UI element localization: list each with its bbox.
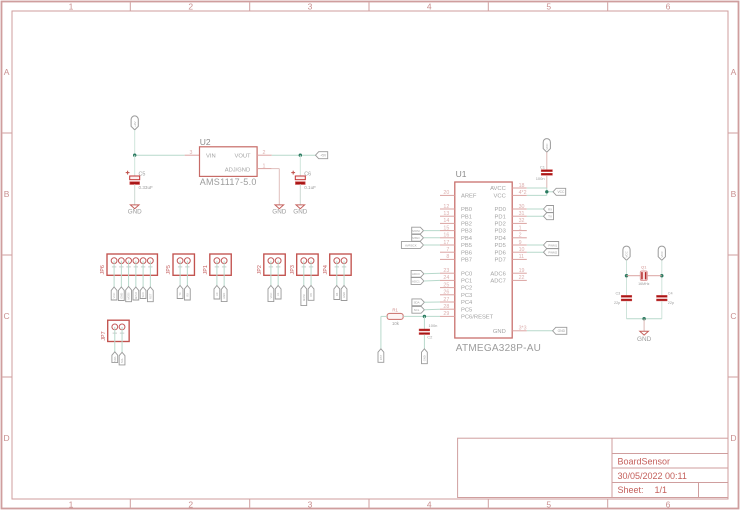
wire VCC net <box>527 194 547 196</box>
svg-text:PB7: PB7 <box>461 258 472 264</box>
net flag under JP7 pin 1 <box>112 352 118 363</box>
wire JP4 pin 2 <box>343 261 345 286</box>
capacitor C6 0.1uF <box>291 171 316 190</box>
svg-text:RX: RX <box>185 293 189 297</box>
junction input net <box>133 154 136 157</box>
pin header JP2 <box>264 254 285 275</box>
wire left supply down <box>626 260 628 295</box>
junction ground net <box>642 317 645 320</box>
U1 pin 13 PB1 <box>440 211 472 220</box>
svg-text:SDA: SDA <box>113 356 117 362</box>
svg-text:PD0: PD0 <box>495 207 506 213</box>
net flag MOSI under JP6 <box>126 287 132 302</box>
svg-text:Q1: Q1 <box>641 265 647 270</box>
wire input net horizontal <box>135 154 185 156</box>
svg-text:BoardSensor: BoardSensor <box>618 456 671 466</box>
svg-text:TX: TX <box>178 292 182 296</box>
svg-text:30: 30 <box>519 204 525 210</box>
svg-text:16: 16 <box>443 233 449 239</box>
svg-text:PC4: PC4 <box>461 300 473 306</box>
svg-text:29: 29 <box>443 311 449 317</box>
svg-text:2: 2 <box>263 150 266 156</box>
wire PC5 net <box>424 308 440 311</box>
net flag SCK under JP6 <box>140 287 146 299</box>
svg-text:Sheet:: Sheet: <box>618 485 644 495</box>
wire PB4 net <box>424 237 441 239</box>
svg-text:2: 2 <box>188 499 193 509</box>
net flag on PD5 <box>544 242 559 249</box>
pin header JP5 <box>173 254 194 275</box>
pin header JP4 <box>330 254 351 275</box>
svg-text:28: 28 <box>443 304 449 310</box>
svg-text:1: 1 <box>69 499 74 509</box>
wire ADJ to ground <box>272 169 280 205</box>
frame row letters <box>4 67 737 443</box>
svg-text:D5: D5 <box>309 293 313 297</box>
svg-text:6: 6 <box>666 1 671 11</box>
pin header JP7 <box>108 320 129 341</box>
U1 pin 32 PD2 <box>495 218 527 227</box>
wire C5 to ground <box>134 184 136 204</box>
wire JP3 pin 2 <box>310 261 312 286</box>
svg-text:VIN: VIN <box>206 153 216 159</box>
net flag RXD <box>544 206 554 213</box>
regulator U2 body <box>200 147 258 177</box>
wire PD6 net <box>527 251 544 253</box>
svg-text:PD2: PD2 <box>495 222 506 228</box>
wire JP3 pin 1 <box>303 261 305 286</box>
svg-text:D6: D6 <box>335 292 339 296</box>
net flag TX under JP5 <box>177 286 183 299</box>
wire PB3 net <box>424 230 441 232</box>
svg-text:18: 18 <box>519 183 525 189</box>
U1 pin 18 AVCC <box>490 183 527 192</box>
svg-text:22p: 22p <box>668 301 674 305</box>
svg-text:6: 6 <box>666 499 671 509</box>
U1 pin 20 AREF <box>440 190 477 199</box>
svg-text:15: 15 <box>443 225 449 231</box>
svg-text:9: 9 <box>519 240 522 246</box>
svg-text:JP7: JP7 <box>101 331 107 340</box>
svg-text:3: 3 <box>308 1 313 11</box>
wire +5V output net <box>272 154 316 156</box>
svg-text:VCC: VCC <box>545 143 549 150</box>
svg-text:GND: GND <box>637 336 652 343</box>
net flag GND under JP1 <box>221 286 227 302</box>
ground symbol below C5 <box>128 205 142 216</box>
wire JP6 pin 2 <box>120 261 122 287</box>
svg-text:C3: C3 <box>615 291 620 295</box>
svg-text:PB6: PB6 <box>461 250 472 256</box>
svg-text:25: 25 <box>443 282 449 288</box>
frame row ticks <box>2 133 737 377</box>
svg-text:JP5: JP5 <box>166 265 172 274</box>
pin header JP3 <box>297 254 318 275</box>
svg-text:12: 12 <box>443 204 449 210</box>
wire input to C5 <box>134 155 136 176</box>
svg-text:JP4: JP4 <box>323 265 329 274</box>
svg-text:GND: GND <box>272 209 286 216</box>
svg-text:ATMEGA328P-AU: ATMEGA328P-AU <box>456 343 541 354</box>
U1 pin 3*3 GND <box>493 326 527 335</box>
svg-text:1: 1 <box>519 225 522 231</box>
wire JP2 pin 1 <box>270 261 272 286</box>
net flag MISO on PB4 <box>412 234 424 241</box>
junction XTAL1 <box>625 274 628 277</box>
U1 pin 24 PC1 <box>440 275 472 284</box>
wire GND net <box>527 330 553 332</box>
junction VCC net <box>545 190 548 193</box>
svg-text:GND: GND <box>293 209 307 216</box>
svg-text:20: 20 <box>443 190 449 196</box>
wire PD0 net <box>527 208 544 210</box>
svg-text:JP1: JP1 <box>203 265 209 274</box>
net flag MOSI under JP3 <box>301 286 307 306</box>
svg-text:AVCC: AVCC <box>490 186 506 192</box>
svg-text:24: 24 <box>443 275 449 281</box>
U1 pin 22 ADC7 <box>490 275 526 284</box>
svg-text:0.33uF: 0.33uF <box>139 185 153 190</box>
svg-text:14: 14 <box>443 218 449 224</box>
svg-text:VCC: VCC <box>557 190 565 194</box>
svg-text:SDA: SDA <box>414 301 420 305</box>
net flag GND <box>553 327 567 334</box>
svg-text:100n: 100n <box>536 176 545 181</box>
svg-text:C4: C4 <box>668 291 673 295</box>
svg-text:PD6: PD6 <box>495 250 506 256</box>
wire JP7 pin 2 <box>121 327 123 352</box>
wire PC4 net <box>424 301 440 303</box>
svg-text:GND: GND <box>493 329 506 335</box>
U2 pin 2 stub <box>257 150 272 156</box>
U1 pin 25 PC2 <box>440 282 472 291</box>
net flag ADC1 on PC1 <box>411 278 424 285</box>
wire JP6 pin 5 <box>142 261 144 287</box>
wire PD5 net <box>527 244 544 246</box>
supply flag VCC left of crystal <box>623 246 630 260</box>
svg-text:C1: C1 <box>540 164 546 169</box>
svg-text:GND: GND <box>422 355 426 361</box>
svg-text:A1: A1 <box>276 292 280 296</box>
svg-text:4*2: 4*2 <box>519 190 527 196</box>
svg-text:5: 5 <box>546 499 551 509</box>
U1 pin 10 PD6 <box>495 247 527 256</box>
net flag AVRSCK on PB5 <box>401 242 423 249</box>
wire C4 down <box>661 301 663 319</box>
wire R1 left to flag <box>381 316 387 348</box>
svg-text:SCL: SCL <box>120 357 124 363</box>
svg-text:10k: 10k <box>392 321 400 326</box>
U1 pin 9 PD5 <box>495 240 527 249</box>
wire C3 down <box>626 301 628 319</box>
svg-text:A: A <box>731 67 737 77</box>
U1 pin 8 PB7 <box>440 254 472 263</box>
resistor R1 10k <box>387 307 403 326</box>
net flag ADC0 on PC0 <box>411 270 424 277</box>
wire output to C6 <box>299 155 301 176</box>
wire junction to VCC flag <box>547 191 553 193</box>
U1 pin 15 PB3 <box>440 225 472 234</box>
svg-text:11: 11 <box>519 254 525 260</box>
U1 pin 16 PB4 <box>440 233 473 242</box>
svg-text:ADC6: ADC6 <box>490 271 505 277</box>
net flag A1 under JP2 <box>275 286 281 300</box>
svg-text:B: B <box>4 189 10 199</box>
svg-text:3: 3 <box>190 150 193 156</box>
svg-text:PWM2: PWM2 <box>548 251 557 255</box>
net flag SCL on PC5 <box>412 306 425 313</box>
net flag RST left <box>378 349 384 363</box>
svg-text:22p: 22p <box>614 301 620 305</box>
microcontroller U1 body <box>455 182 512 338</box>
svg-text:D: D <box>730 433 736 443</box>
svg-text:PWM1: PWM1 <box>548 243 557 247</box>
svg-text:SCL: SCL <box>414 308 420 312</box>
svg-text:ADC7: ADC7 <box>490 279 505 285</box>
svg-text:PC0: PC0 <box>461 271 472 277</box>
svg-text:MOSI: MOSI <box>127 292 131 299</box>
svg-text:VCC: VCC <box>112 293 116 299</box>
svg-text:JP6: JP6 <box>100 265 106 274</box>
U1 pin 23 PC0 <box>440 268 472 277</box>
svg-text:JP3: JP3 <box>290 265 296 274</box>
wire JP5 pin 1 <box>179 261 181 286</box>
U1 pin 14 PB2 <box>440 218 472 227</box>
svg-text:VCC: VCC <box>494 194 506 200</box>
svg-text:GND: GND <box>119 293 123 299</box>
net flag RX under JP5 <box>184 286 190 301</box>
wire C6 to ground <box>299 184 301 204</box>
net flag GND under JP6 <box>118 287 124 301</box>
svg-text:GND: GND <box>222 293 226 299</box>
svg-text:2: 2 <box>188 1 193 11</box>
svg-text:B: B <box>731 189 737 199</box>
net flag VCC <box>553 188 566 195</box>
svg-text:1: 1 <box>69 1 74 11</box>
net flag MISO under JP6 <box>133 287 139 300</box>
wire right supply down <box>661 260 663 295</box>
wire to ground symbol <box>643 319 645 332</box>
svg-text:17: 17 <box>443 240 449 246</box>
crystal Q1 pin stubs <box>627 275 662 277</box>
svg-text:PC5: PC5 <box>461 307 472 313</box>
wire C2 to flag <box>423 335 425 349</box>
U1 pin 2 PD4 <box>495 233 527 242</box>
net flag +5V <box>316 152 328 159</box>
wire VCC vertical <box>546 188 548 195</box>
svg-text:PC1: PC1 <box>461 279 472 285</box>
net flag D5 under JP3 <box>308 286 314 301</box>
svg-text:13: 13 <box>443 211 449 217</box>
wire AVCC net <box>527 187 547 189</box>
svg-text:PC6/RESET: PC6/RESET <box>461 315 494 321</box>
U1 pin 27 PC4 <box>440 297 473 306</box>
wire junction to C2 <box>423 316 425 329</box>
svg-text:SCK: SCK <box>141 292 145 298</box>
wire JP1 pin 1 <box>216 261 218 286</box>
U1 pin 31 PD1 <box>495 211 527 220</box>
svg-text:0.1uF: 0.1uF <box>304 185 316 190</box>
junction XTAL2 <box>660 274 663 277</box>
svg-text:RST: RST <box>148 293 152 299</box>
U1 pin 29 PC6/RESET <box>440 311 494 320</box>
svg-text:PB1: PB1 <box>461 214 472 220</box>
net flag VCC under JP6 <box>111 287 117 300</box>
capacitor C5 0.33uF <box>126 171 153 190</box>
U1 pin 1 PD3 <box>495 225 527 234</box>
svg-text:RX: RX <box>548 207 552 211</box>
svg-text:VCC: VCC <box>269 293 273 299</box>
title sheet text <box>618 485 668 495</box>
svg-text:PB0: PB0 <box>461 207 472 213</box>
svg-text:1/1: 1/1 <box>655 485 668 495</box>
junction output net <box>299 154 302 157</box>
svg-text:4: 4 <box>427 1 432 11</box>
wire JP6 pin 3 <box>128 261 130 287</box>
U1 pin 7 PB6 <box>440 247 472 256</box>
svg-text:4: 4 <box>427 499 432 509</box>
U1 pin 17 PB5 <box>440 240 472 249</box>
wire C1 to AVCC <box>546 175 548 188</box>
svg-text:PB3: PB3 <box>461 229 472 235</box>
capacitor C3 22p <box>614 291 632 305</box>
ground symbol at U2 ADJ <box>272 205 286 216</box>
svg-text:32: 32 <box>519 218 525 224</box>
crystal Q1 16MHz <box>638 265 650 286</box>
svg-text:AREF: AREF <box>461 194 477 200</box>
wire PC0 net <box>424 272 440 275</box>
net flag SDA on PC4 <box>412 299 425 306</box>
svg-text:31: 31 <box>519 211 525 217</box>
svg-text:7: 7 <box>446 247 449 253</box>
svg-text:ADC1: ADC1 <box>412 279 420 283</box>
svg-text:PC2: PC2 <box>461 286 472 292</box>
svg-text:PD5: PD5 <box>495 243 506 249</box>
svg-text:GND: GND <box>342 292 346 298</box>
svg-text:PB2: PB2 <box>461 222 472 228</box>
wire JP4 pin 1 <box>336 261 338 286</box>
net flag A0 under JP1 <box>214 286 220 300</box>
supply flag +9V input <box>131 116 138 130</box>
wire JP6 pin 1 <box>113 261 115 287</box>
net flag TXD <box>544 213 554 220</box>
U2 pin 1 stub <box>257 163 272 169</box>
svg-text:A: A <box>4 67 10 77</box>
frame column ticks <box>130 2 607 507</box>
svg-text:GND: GND <box>128 209 142 216</box>
svg-text:MOSI: MOSI <box>412 229 420 233</box>
svg-text:VCC: VCC <box>660 250 664 257</box>
svg-text:C: C <box>4 311 10 321</box>
svg-text:+9V: +9V <box>133 121 137 126</box>
U1 pin 12 PB0 <box>440 204 472 213</box>
net flag GND below C2 <box>422 349 428 364</box>
svg-text:C2: C2 <box>427 334 433 339</box>
svg-text:8: 8 <box>446 254 449 260</box>
svg-text:30/05/2022 00:11: 30/05/2022 00:11 <box>618 471 687 481</box>
wire JP5 pin 2 <box>186 261 188 286</box>
svg-text:C: C <box>730 311 736 321</box>
svg-text:1: 1 <box>263 163 266 169</box>
svg-text:23: 23 <box>443 268 449 274</box>
svg-text:A0: A0 <box>215 292 219 296</box>
svg-text:5: 5 <box>546 1 551 11</box>
net flag VCC under JP2 <box>268 286 274 302</box>
pin header JP6 <box>107 254 157 275</box>
svg-text:+5V: +5V <box>320 154 327 158</box>
net flag under JP7 pin 2 <box>119 352 125 365</box>
svg-text:MISO: MISO <box>412 236 420 240</box>
wire supply to junction <box>134 130 136 155</box>
svg-text:3: 3 <box>308 499 313 509</box>
svg-text:22: 22 <box>519 275 525 281</box>
svg-text:ADC0: ADC0 <box>412 272 420 276</box>
svg-text:AMS1117-5.0: AMS1117-5.0 <box>200 177 257 187</box>
net flag RST under JP6 <box>147 287 153 302</box>
wire R1 to RESET pin <box>403 315 440 317</box>
svg-text:D: D <box>4 433 10 443</box>
svg-text:AVRSCK: AVRSCK <box>405 243 417 247</box>
U1 pin 11 PD7 <box>495 254 527 263</box>
svg-text:PD4: PD4 <box>495 236 507 242</box>
svg-text:PD7: PD7 <box>495 258 506 264</box>
svg-text:PC3: PC3 <box>461 293 472 299</box>
svg-text:PB5: PB5 <box>461 243 472 249</box>
svg-text:GND: GND <box>558 329 566 333</box>
wire JP6 pin 4 <box>135 261 137 287</box>
svg-text:19: 19 <box>519 268 525 274</box>
svg-text:3*3: 3*3 <box>519 326 527 332</box>
U2 pin 3 stub <box>185 150 200 156</box>
wire JP2 pin 2 <box>277 261 279 286</box>
U1 pin 28 PC5 <box>440 304 472 313</box>
svg-text:C6: C6 <box>304 171 311 177</box>
ground symbol below C6 <box>293 205 307 216</box>
wire bottom ground net <box>627 318 662 320</box>
svg-text:ADJ/GND: ADJ/GND <box>225 168 250 174</box>
svg-text:R1: R1 <box>392 307 398 312</box>
wire supply to C1 <box>546 152 548 170</box>
net flag D6 under JP4 <box>334 286 340 300</box>
wire JP7 pin 1 <box>114 327 116 352</box>
supply flag VCC right of crystal <box>658 246 665 260</box>
junction reset net <box>423 315 426 318</box>
svg-text:TX: TX <box>548 215 552 219</box>
svg-text:VOUT: VOUT <box>234 153 251 159</box>
capacitor C2 100n <box>419 323 437 339</box>
net flag GND under JP4 <box>341 286 347 301</box>
svg-text:U1: U1 <box>456 169 467 179</box>
wire PB5 net <box>424 244 441 246</box>
svg-text:26: 26 <box>443 290 449 296</box>
svg-text:MOSI: MOSI <box>302 294 306 301</box>
title block outline <box>458 438 728 497</box>
net flag MOSI on PB3 <box>412 227 424 234</box>
U1 pin 19 ADC6 <box>490 268 526 277</box>
wire JP1 pin 2 <box>223 261 225 286</box>
U1 pin 30 PD0 <box>495 204 527 213</box>
wire PD1 net <box>527 215 544 217</box>
wire JP6 pin 6 <box>149 261 151 287</box>
wire PC1 net <box>424 279 440 282</box>
svg-text:C5: C5 <box>139 171 146 177</box>
capacitor C4 22p <box>657 291 675 305</box>
U1 pin 26 PC3 <box>440 290 472 299</box>
svg-text:RST: RST <box>379 355 383 361</box>
net flag on PD6 <box>544 249 559 256</box>
svg-text:MISO: MISO <box>134 292 138 299</box>
supply flag VCC above C1 <box>543 139 550 153</box>
